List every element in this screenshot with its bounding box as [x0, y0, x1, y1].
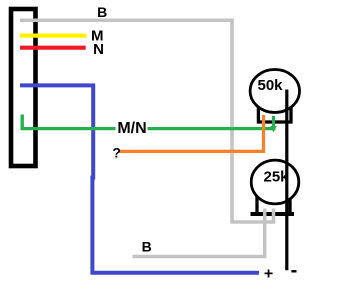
- label M/N white backing: [116, 120, 148, 136]
- pot 50k body: [258, 106, 291, 123]
- pot 25k bottom plate: [251, 212, 295, 216]
- svg-text:25k: 25k: [263, 169, 289, 186]
- wire M (yellow): [20, 33, 87, 37]
- svg-text:-: -: [291, 260, 298, 282]
- svg-text:B: B: [97, 4, 107, 20]
- wire M/N (green) horizontal: [21, 127, 276, 130]
- op 50k circle U1: [250, 70, 299, 113]
- svg-text:+: +: [264, 266, 273, 283]
- svg-text:?: ?: [112, 144, 121, 160]
- pot 25k circle: [251, 160, 299, 204]
- wire N (red): [20, 46, 86, 50]
- wire green stub at 50k lug: [272, 116, 275, 128]
- green arrow head: [270, 126, 276, 132]
- svg-text:N: N: [93, 41, 104, 58]
- wire blue: [20, 85, 259, 272]
- output shaft wire (black vertical): [285, 90, 288, 271]
- wire B top (gray): [20, 20, 274, 222]
- wire ? (orange): [119, 115, 264, 151]
- wire M/N (green) stub at pickup: [21, 115, 24, 131]
- wire B bottom (gray): [132, 209, 264, 257]
- svg-text:50k: 50k: [257, 77, 283, 94]
- svg-text:B: B: [142, 238, 152, 254]
- pickup/switch rectangle: [11, 9, 36, 166]
- pot 25k body: [257, 198, 290, 215]
- svg-text:M/N: M/N: [117, 120, 146, 137]
